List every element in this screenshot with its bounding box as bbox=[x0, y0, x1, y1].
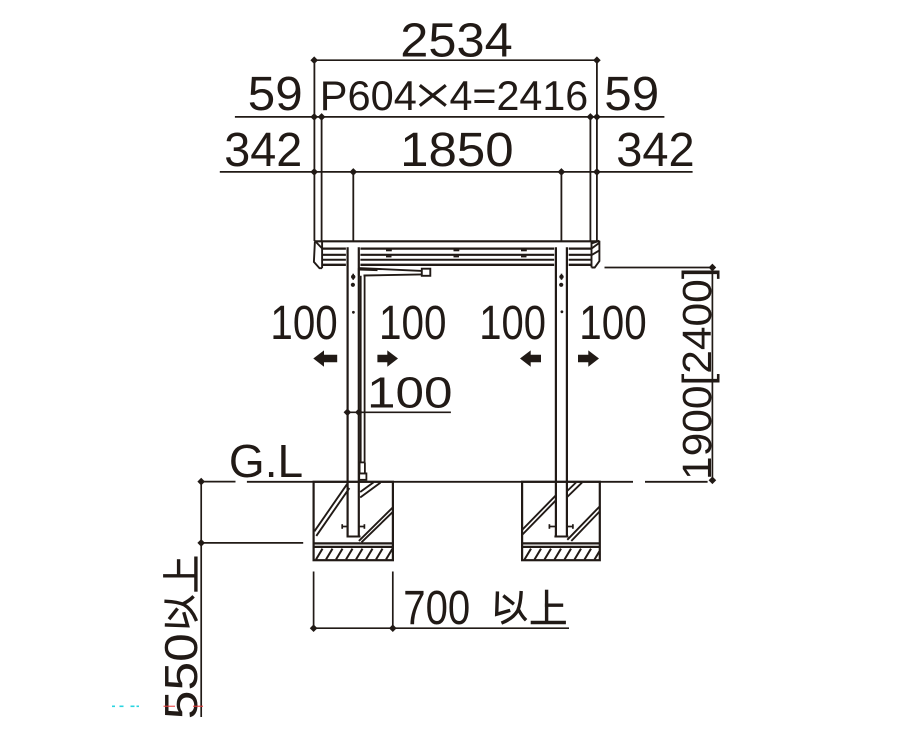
right post anchor bolts bbox=[549, 524, 573, 529]
svg-text:100: 100 bbox=[367, 369, 453, 418]
right post roof gap bbox=[554, 246, 569, 267]
svg-text:342: 342 bbox=[616, 124, 694, 177]
dimension line 1900[2400] bbox=[709, 264, 717, 484]
dimension line 100 post width bbox=[344, 408, 451, 416]
left post base plate bbox=[347, 536, 361, 538]
dimension line row3 342/1850/342 bbox=[220, 168, 693, 176]
dimension 700以上 bbox=[310, 572, 569, 633]
roof panel joint tick 2 bbox=[454, 249, 460, 257]
extension line right (2534 end, down to roof) bbox=[596, 60, 598, 241]
svg-text:P604: P604 bbox=[320, 72, 417, 119]
extension line P604 right (down to roof) bbox=[589, 117, 591, 241]
svg-text:1900[2400]: 1900[2400] bbox=[674, 268, 720, 481]
svg-text:100: 100 bbox=[479, 297, 546, 350]
dimension line row2 P604 bbox=[235, 113, 665, 121]
svg-text:342: 342 bbox=[224, 124, 302, 177]
support leg (left post) bbox=[359, 276, 366, 480]
roof panel joint tick 3 bbox=[521, 249, 527, 257]
extension line 1850 right (down to roof) bbox=[560, 172, 562, 241]
svg-text:59: 59 bbox=[604, 68, 659, 121]
extension line P604 left (down to roof) bbox=[321, 117, 323, 241]
svg-text:700: 700 bbox=[403, 582, 470, 635]
svg-text:2534: 2534 bbox=[400, 15, 512, 68]
right post bbox=[556, 247, 567, 537]
extension line left (2534 end, down to roof) bbox=[313, 60, 315, 241]
left post bolt top bbox=[351, 274, 356, 314]
leader line roof to 1900 dimension bbox=[605, 267, 713, 269]
roof left end cap bbox=[314, 241, 322, 268]
left footing gravel ticks bbox=[316, 549, 393, 560]
roof beam top line bbox=[315, 240, 600, 242]
arrow right (right post) bbox=[578, 350, 599, 366]
arrow left (left post) bbox=[313, 350, 337, 366]
right post base plate bbox=[554, 536, 568, 538]
left post roof gap bbox=[346, 246, 361, 267]
roof beam line 2 bbox=[322, 248, 591, 250]
left footing hatch bbox=[314, 482, 393, 542]
label 550以上 (rotated) bbox=[155, 558, 207, 719]
svg-text:100: 100 bbox=[270, 297, 337, 350]
svg-text:59: 59 bbox=[248, 68, 303, 121]
roof right end cap bbox=[591, 241, 599, 268]
arrow left (right post) bbox=[520, 350, 541, 366]
roof beam line 3 bbox=[322, 254, 591, 256]
ground line G.L bbox=[201, 481, 707, 483]
right footing gravel ticks bbox=[525, 549, 600, 560]
svg-text:G.L: G.L bbox=[229, 435, 303, 487]
left post anchor bolts bbox=[342, 524, 364, 529]
svg-text:100: 100 bbox=[579, 297, 646, 350]
artifact red dashes bbox=[164, 706, 204, 707]
right footing block bbox=[522, 482, 600, 560]
left post bbox=[348, 247, 359, 537]
support arm end cap bbox=[422, 269, 431, 276]
roof beam bottom line bbox=[322, 264, 591, 266]
dimension line 2534 bbox=[310, 56, 600, 64]
svg-text:100: 100 bbox=[379, 297, 447, 350]
support arm (left post) bbox=[359, 268, 422, 276]
right footing hatch bbox=[523, 483, 600, 542]
label 700以上 bbox=[403, 582, 564, 635]
roof beam line 4 bbox=[322, 259, 591, 261]
dimension 550以上 extension bbox=[197, 478, 303, 717]
left footing block bbox=[314, 482, 393, 560]
artifact cyan dots bbox=[112, 706, 139, 708]
svg-text:1850: 1850 bbox=[400, 124, 514, 177]
right post bolt top bbox=[559, 274, 564, 313]
arrow right (left post) bbox=[377, 350, 398, 366]
extension line 1850 left (down to roof) bbox=[352, 172, 354, 241]
roof panel joint tick 1 bbox=[386, 249, 392, 257]
svg-text:4=2416: 4=2416 bbox=[450, 72, 589, 119]
